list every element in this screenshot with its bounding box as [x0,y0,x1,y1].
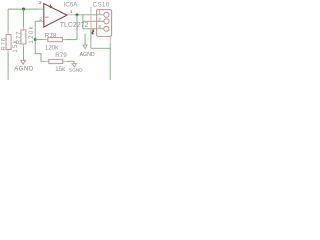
node junction dot feedback node [34,38,37,41]
resistor R76 body [6,35,11,50]
wire: R78 right to feedback vertical [66,39,77,41]
node junction dot on output [76,13,79,16]
wire: R79 right to SGND [66,60,74,62]
wire: feedback from output down to R78 [76,15,78,40]
op-amp IC6A triangle [44,4,67,27]
pin stub: op-amp -in [40,20,44,22]
connector pin 2 circle [104,19,109,24]
svg-text:3: 3 [39,0,42,6]
pin stub: R78 right pin [62,39,65,41]
pin stub: R77 bottom pin [23,44,25,47]
wire: feedback node to R78 left [35,39,44,41]
svg-text:TLC2272: TLC2272 [60,22,89,29]
pin stub: R76 top pin [7,31,9,34]
node junction dot at input net [22,8,25,11]
op-amp plus sign [49,5,53,9]
wire: branch to connector pin 2 [83,20,104,22]
connector pin 3 circle [104,26,109,31]
ground AGND (right) arrow [83,45,87,49]
svg-text:120k: 120k [29,25,35,44]
wire: shield net to bottom edge [109,43,111,80]
pin stub: connector shield pin [109,37,111,43]
svg-text:CS10: CS10 [93,2,110,8]
resistor R79 body [49,59,63,63]
svg-text:R77: R77 [16,31,22,44]
wire: R77 bottom to AGND [23,47,25,60]
wire: SGND stub [73,61,75,63]
svg-text:SGND: SGND [69,67,83,72]
pin stub: op-amp +in [40,8,44,10]
resistor R78 body [48,38,63,42]
pin stub: R79 right pin [63,60,66,62]
wire: ground net along jack [91,29,110,48]
wire: R76 bottom to sheet bottom edge [7,52,9,80]
wire: junction down to R77 [23,9,25,27]
svg-text:R76: R76 [2,37,8,50]
wire: output net to connector pin 1 [75,14,104,16]
svg-text:R78: R78 [45,32,57,39]
background [0,0,120,80]
wire: -in to feedback node [35,21,40,39]
svg-text:AGND: AGND [80,52,95,58]
pin stub: op-amp output [67,14,75,16]
svg-text:15k: 15k [55,66,66,73]
wire: branch to connector pin 3 [83,28,104,30]
svg-text:R79: R79 [55,52,67,59]
svg-text:120k: 120k [45,45,59,52]
pin stub: R79 left pin [45,60,48,62]
jack sleeve switch mark [92,30,93,34]
pin stub: R78 left pin [44,39,47,41]
wire: output branch down along connector [82,15,84,29]
op-amp minus sign [45,16,48,18]
svg-text:1: 1 [70,9,73,15]
svg-text:AGND: AGND [14,67,34,73]
connector jack panel line (pale) [90,7,92,30]
ground SGND arrow [72,64,77,67]
resistor R77 body [21,30,26,44]
pin stub: R77 top pin [23,27,25,30]
ground AGND (left) arrow [21,60,26,64]
wire: input net horizontal to op-amp +in [8,8,40,10]
wire: feedback node down with jog to R79 [35,40,45,62]
connector pin 1 circle [104,12,109,17]
connector CS10 box [97,10,112,37]
wire: AGND right stub [84,33,86,45]
svg-text:IC6A: IC6A [64,2,79,9]
wire: input net vertical down to R76 [7,9,9,31]
pin stub: R76 bottom pin [7,49,9,52]
